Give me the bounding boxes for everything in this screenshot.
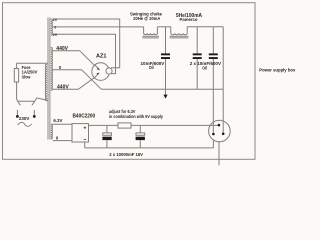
svg-text:230V: 230V [19, 116, 30, 122]
connector pin top [218, 124, 221, 127]
resistor R1 body [118, 123, 131, 128]
wire primary top to fuse [17, 62, 48, 64]
svg-text:B40C2200: B40C2200 [73, 113, 96, 119]
wire HT 0 tap to ground rail [53, 70, 102, 90]
LV ground rail [85, 147, 214, 149]
svg-text:AZ1: AZ1 [96, 53, 107, 59]
svg-text:6.3V: 6.3V [53, 118, 63, 123]
wire LV 0 tap to bridge [53, 140, 72, 142]
svg-text:2V: 2V [53, 33, 58, 37]
wire 6.3V tap to bridge [53, 123, 72, 125]
wire HT+ down to connector pin [222, 27, 224, 133]
transformer primary winding 230V [45, 64, 47, 100]
output stub below box [218, 142, 220, 165]
AC tilde symbol [18, 122, 32, 126]
wire fuse to mains connector [17, 63, 18, 101]
svg-text:Oil: Oil [149, 65, 154, 70]
wire bridge minus to LV rail [84, 142, 86, 148]
choke L1 core [142, 36, 158, 38]
wire 2V bottom tap to AZ1 filament [53, 34, 116, 73]
capacitor C2a lead [196, 27, 198, 89]
tube AZ1 anode 1 [94, 65, 98, 69]
capacitor C2b plates [209, 53, 218, 55]
mains terminal dot N [33, 115, 36, 118]
transformer T1 core [48, 18, 50, 140]
svg-text:in combination with 5V supply: in combination with 5V supply [109, 114, 163, 119]
svg-text:2V: 2V [53, 18, 58, 22]
wire 6.3V+ line to connector [89, 124, 218, 126]
tube AZ1 filament circle [106, 68, 112, 74]
capacitor C4 top plate [136, 133, 145, 135]
ground arrow [163, 95, 167, 99]
capacitor C2b lead / ground to connector [212, 27, 214, 133]
svg-text:Power supply box: Power supply box [259, 68, 295, 74]
smoothing choke L2 [171, 27, 187, 35]
wire rail between chokes [157, 26, 170, 28]
wire 440V top tap to AZ1 anode [53, 51, 95, 66]
svg-text:440V: 440V [56, 46, 68, 52]
svg-text:Slow: Slow [22, 75, 31, 80]
connector pin right [222, 133, 225, 136]
fuse F1 body [14, 69, 18, 83]
capacitor C4 leads [139, 125, 141, 147]
tube AZ1 anode arrow 2 [96, 73, 99, 76]
tube AZ1 envelope [92, 63, 110, 81]
transformer winding 440V/0/440V (HT secondary) [51, 48, 53, 91]
svg-text:2 x 10000mF 16V: 2 x 10000mF 16V [109, 152, 143, 157]
mains terminal dot L [16, 115, 19, 118]
bridge rectifier B40C2200 body [72, 124, 89, 142]
svg-text:Oil: Oil [202, 66, 207, 71]
capacitor C3 leads [106, 125, 108, 147]
wire 440V bottom tap to AZ1 anode [53, 77, 95, 89]
ground rail HT [101, 88, 223, 90]
capacitor C2a plates [193, 53, 202, 55]
connector pin left [212, 133, 215, 136]
svg-text:Pamerco: Pamerco [180, 17, 198, 23]
capacitor C4 bottom plate [136, 137, 145, 140]
tube AZ1 anode 2 [94, 74, 98, 78]
svg-text:440V: 440V [57, 85, 69, 91]
mains pin L [16, 110, 18, 115]
mains pin N [33, 110, 35, 115]
transformer winding 2V/0/2V (top secondary) [51, 19, 53, 35]
power supply box outline [3, 3, 256, 160]
capacitor C3 top plate [103, 133, 112, 135]
svg-text:0: 0 [54, 25, 56, 29]
tube AZ1 anode arrow 1 [97, 68, 100, 71]
wire LV rail up to connector [212, 140, 214, 148]
transformer winding 6.3V/0 (heater secondary) [51, 124, 53, 139]
svg-text:20He @ 20mA: 20He @ 20mA [133, 16, 161, 21]
capacitor C1 plates [16, 53, 225, 140]
wire HT+ rail right [187, 26, 223, 28]
wire 0 centre tap HT+ rail to choke [53, 26, 144, 28]
wire 2V top tap to AZ1 filament [53, 19, 120, 68]
choke L2 core [170, 36, 189, 38]
capacitor C3 bottom plate [102, 137, 111, 140]
wire primary bottom to mains connector [35, 98, 48, 101]
swinging choke L1 [144, 27, 158, 35]
mains connector bar [18, 101, 35, 105]
bridge polarity marks [84, 127, 86, 140]
capacitor C1 10mF/600V leads [165, 27, 167, 95]
output connector socket [209, 120, 231, 142]
